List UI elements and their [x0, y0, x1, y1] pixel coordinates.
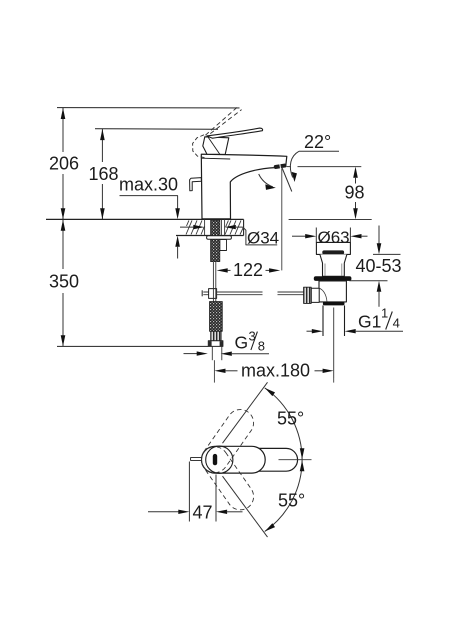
- max.30 lower arrow up (below counter): [175, 236, 180, 247]
- svg-text:40-53: 40-53: [355, 256, 401, 276]
- 22 slant line: [282, 167, 292, 192]
- svg-text:22°: 22°: [304, 132, 331, 152]
- 22 big arc: [290, 151, 299, 177]
- dim 168 arrow down: [100, 208, 105, 219]
- drain neck: [320, 254, 347, 276]
- dashed hub (raised position): [193, 135, 205, 158]
- svg-text:55°: 55°: [277, 408, 304, 428]
- svg-text:max.30: max.30: [119, 175, 178, 195]
- axis line right: [279, 459, 312, 461]
- max.30 leader shelf: [120, 196, 178, 209]
- svg-text:1: 1: [381, 305, 388, 320]
- svg-text:max.180: max.180: [241, 360, 310, 380]
- faucet body: [201, 154, 286, 219]
- hose center line: [213, 360, 215, 382]
- dim 350 vertical line: [62, 220, 64, 269]
- 98 bottom ref line: [289, 219, 372, 221]
- G3/8 arrows: [184, 353, 199, 355]
- pull rod knob on drain: [311, 288, 319, 302]
- hub inner line: [208, 137, 220, 154]
- 55 radius line upper: [223, 382, 268, 443]
- dim max.180: [214, 369, 225, 373]
- linkage horizontal rod: [203, 291, 262, 293]
- lever body capsule (plan): [201, 446, 265, 473]
- lever blade (plan): [253, 448, 298, 471]
- dim 206 arrow down: [61, 208, 66, 219]
- dim 350 arrow up: [61, 220, 66, 231]
- svg-text:168: 168: [88, 164, 118, 184]
- aerator: [273, 163, 286, 170]
- pivot circle: [206, 446, 233, 473]
- counter hatch left block: [186, 220, 205, 234]
- svg-text:350: 350: [49, 272, 79, 292]
- max.30 arrow down: [175, 208, 180, 219]
- counter bottom line: [176, 235, 244, 237]
- dim 206 vertical line: [62, 108, 64, 152]
- dim 122: [217, 268, 228, 272]
- drain flange (black): [314, 276, 352, 281]
- ref line 168: [95, 128, 218, 131]
- dim 168 arrow up: [100, 129, 105, 140]
- G1 1/4 leader: [307, 330, 314, 332]
- dim 168 vertical line: [101, 129, 103, 162]
- 22 underline: [299, 150, 339, 152]
- tailpipe: [322, 305, 324, 336]
- svg-text:122: 122: [233, 260, 263, 280]
- flexible hose braided: [210, 302, 223, 332]
- dim 206 arrow up: [61, 108, 66, 119]
- svg-text:47: 47: [192, 502, 212, 522]
- neck inner lines: [324, 264, 326, 277]
- 98 top ref line: [287, 166, 292, 168]
- dim 350 arrow down: [61, 335, 66, 346]
- dim 98: [353, 167, 358, 178]
- 22 small arc: [259, 174, 273, 187]
- drain bottom band: [323, 302, 345, 306]
- plug seal dark bar: [322, 250, 344, 254]
- dim Ø63: [292, 235, 307, 237]
- pull rod (thin, below shank): [212, 262, 214, 302]
- dashed raised blade: [205, 106, 238, 135]
- hose nut: [208, 341, 223, 347]
- counter top line: [46, 218, 244, 220]
- retaining hook on body left: [190, 178, 202, 191]
- svg-text:4: 4: [393, 315, 400, 330]
- body cap joint line: [202, 157, 231, 160]
- dim 40-53: [378, 226, 380, 244]
- plumb line from spout: [281, 169, 283, 271]
- 55 radius line lower: [223, 476, 268, 537]
- pivot slot: [213, 454, 217, 465]
- dashed lever rotated up 55: [196, 404, 259, 478]
- rod clamp: [209, 289, 217, 299]
- drain center line: [333, 378, 335, 383]
- counter hatch right block: [225, 220, 244, 234]
- svg-text:206: 206: [49, 154, 79, 174]
- top reference line (tip of raised lever): [57, 107, 240, 109]
- hose collar: [211, 331, 221, 341]
- body arc detail: [319, 288, 327, 302]
- svg-text:3: 3: [249, 328, 256, 343]
- Ø34 leader box: [243, 227, 277, 245]
- hole edge left: [204, 219, 206, 235]
- 55 arc lower: [265, 460, 302, 532]
- svg-text:8: 8: [258, 338, 265, 353]
- drain top box: [316, 242, 350, 254]
- svg-text:G: G: [235, 332, 249, 352]
- back stub: [191, 458, 202, 461]
- svg-text:55°: 55°: [278, 491, 305, 511]
- 55 arc upper: [265, 388, 302, 460]
- lever blade: [207, 128, 263, 138]
- hole edge right: [224, 219, 226, 235]
- washer under counter: [207, 236, 232, 240]
- threaded shank: [211, 220, 220, 262]
- svg-text:98: 98: [344, 182, 364, 202]
- thread tails: [211, 346, 213, 360]
- dim 47: [188, 462, 190, 522]
- 350 bottom ref line: [57, 345, 208, 347]
- counter right edge: [243, 219, 245, 235]
- shank collar: [220, 240, 227, 251]
- lever hub: [203, 137, 229, 155]
- svg-text:Ø34: Ø34: [247, 228, 279, 247]
- drain lower body: [319, 281, 346, 302]
- dashed lever rotated down 55: [196, 442, 259, 516]
- shank side line: [220, 220, 222, 251]
- svg-text:G1: G1: [358, 311, 381, 331]
- dim Ø34 arrows: [180, 226, 197, 228]
